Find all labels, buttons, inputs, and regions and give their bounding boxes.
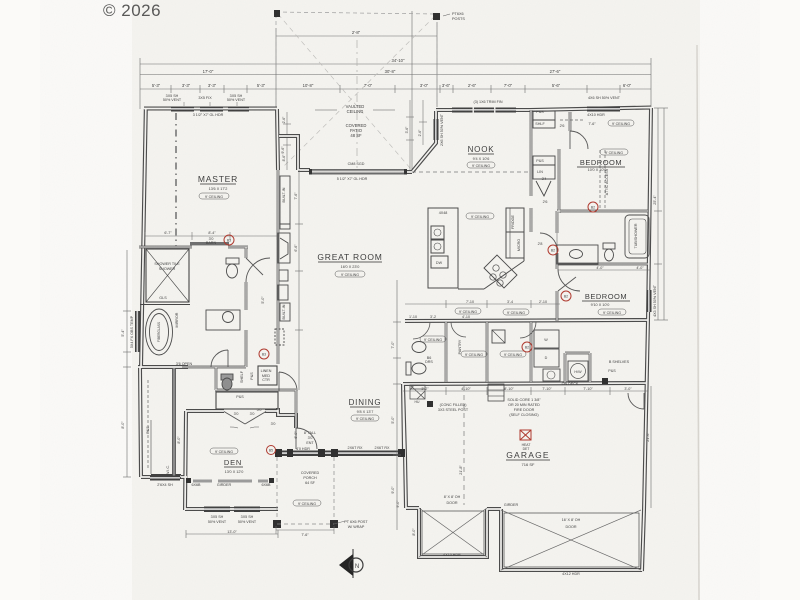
bath west window (obscure): [135, 311, 140, 352]
coat closet door arc: [279, 372, 297, 391]
master toilet room toilet: [226, 258, 239, 264]
master door arc: [211, 258, 317, 449]
washer dryer: [534, 330, 559, 348]
coat closet: [258, 366, 277, 385]
bedroom2 east window: [647, 290, 652, 312]
ceiling boxes: [199, 120, 634, 506]
closet bay window: [151, 474, 181, 479]
water heater: [568, 361, 588, 381]
counters: [484, 261, 524, 289]
dim row A line: [140, 63, 651, 65]
bedroom wing top window: [587, 107, 620, 112]
WC door arc: [211, 350, 228, 367]
patio ridge dashed: [356, 40, 358, 168]
attic access dashed: [560, 120, 605, 208]
interior wall double lines: [139, 110, 648, 428]
patio roof outline: [276, 12, 437, 14]
dashed ceiling line master: [175, 113, 177, 246]
nook top windows: [452, 108, 516, 113]
shower box: [146, 249, 189, 302]
builtin cabinets on great room wall: [275, 176, 290, 345]
range: [484, 255, 517, 288]
rotated tiny annotations: [121, 113, 657, 535]
master bath fixtures: [146, 258, 241, 390]
scan fold line: [697, 45, 699, 600]
great room SGD: [310, 169, 406, 175]
patio posts: [274, 10, 280, 17]
dining/porch south windows: [278, 451, 402, 457]
dim row B line: [140, 74, 651, 76]
small bay inner + X: [422, 511, 484, 554]
den south windows: [204, 507, 230, 513]
linen: [492, 330, 505, 343]
vanity: [206, 310, 240, 330]
garage posts: [427, 401, 433, 407]
entry closet: [216, 392, 278, 409]
extension verticals: [139, 58, 141, 109]
closet bay inner: [148, 368, 176, 477]
dashed center line: [463, 386, 465, 505]
bath1 fixtures: [557, 215, 649, 264]
WC toilet: [221, 374, 233, 380]
patio small dim: [276, 35, 437, 37]
kitchen/nook dashed break: [412, 171, 531, 173]
foyer entry door: [296, 428, 317, 449]
dim row C line: [140, 88, 276, 90]
side dim lines: [123, 108, 668, 538]
tub: [146, 309, 173, 355]
steps at door: [488, 384, 504, 401]
nook west window: [434, 119, 439, 140]
window labels above master wall: [163, 94, 621, 126]
kitchen island: [428, 208, 524, 289]
pantry boxes: [533, 111, 555, 120]
den girder dashes: [193, 480, 268, 483]
bedroom doors: [540, 131, 588, 291]
extra small dim lines: [145, 232, 345, 534]
powder fixtures: [406, 330, 588, 381]
exterior wall double lines: [138, 108, 651, 572]
tiny annotations: [154, 110, 629, 576]
tub platform line: [140, 304, 190, 306]
north arrow: [339, 549, 363, 578]
entry double doors: [224, 412, 245, 425]
barn door panel: [190, 242, 229, 245]
laundry tub: [543, 369, 560, 381]
utility door arcs: [413, 322, 536, 339]
scan noise: [0, 0, 1, 1]
patio roof diagonals: [278, 14, 435, 168]
patio interior dims: [283, 100, 427, 170]
door arc NE: [628, 393, 644, 409]
fridge/oven column: [506, 208, 524, 232]
red marks: [224, 202, 598, 455]
master top windows: [171, 107, 194, 112]
big bay inner + X: [504, 513, 639, 567]
row C ticks: [170, 85, 172, 93]
